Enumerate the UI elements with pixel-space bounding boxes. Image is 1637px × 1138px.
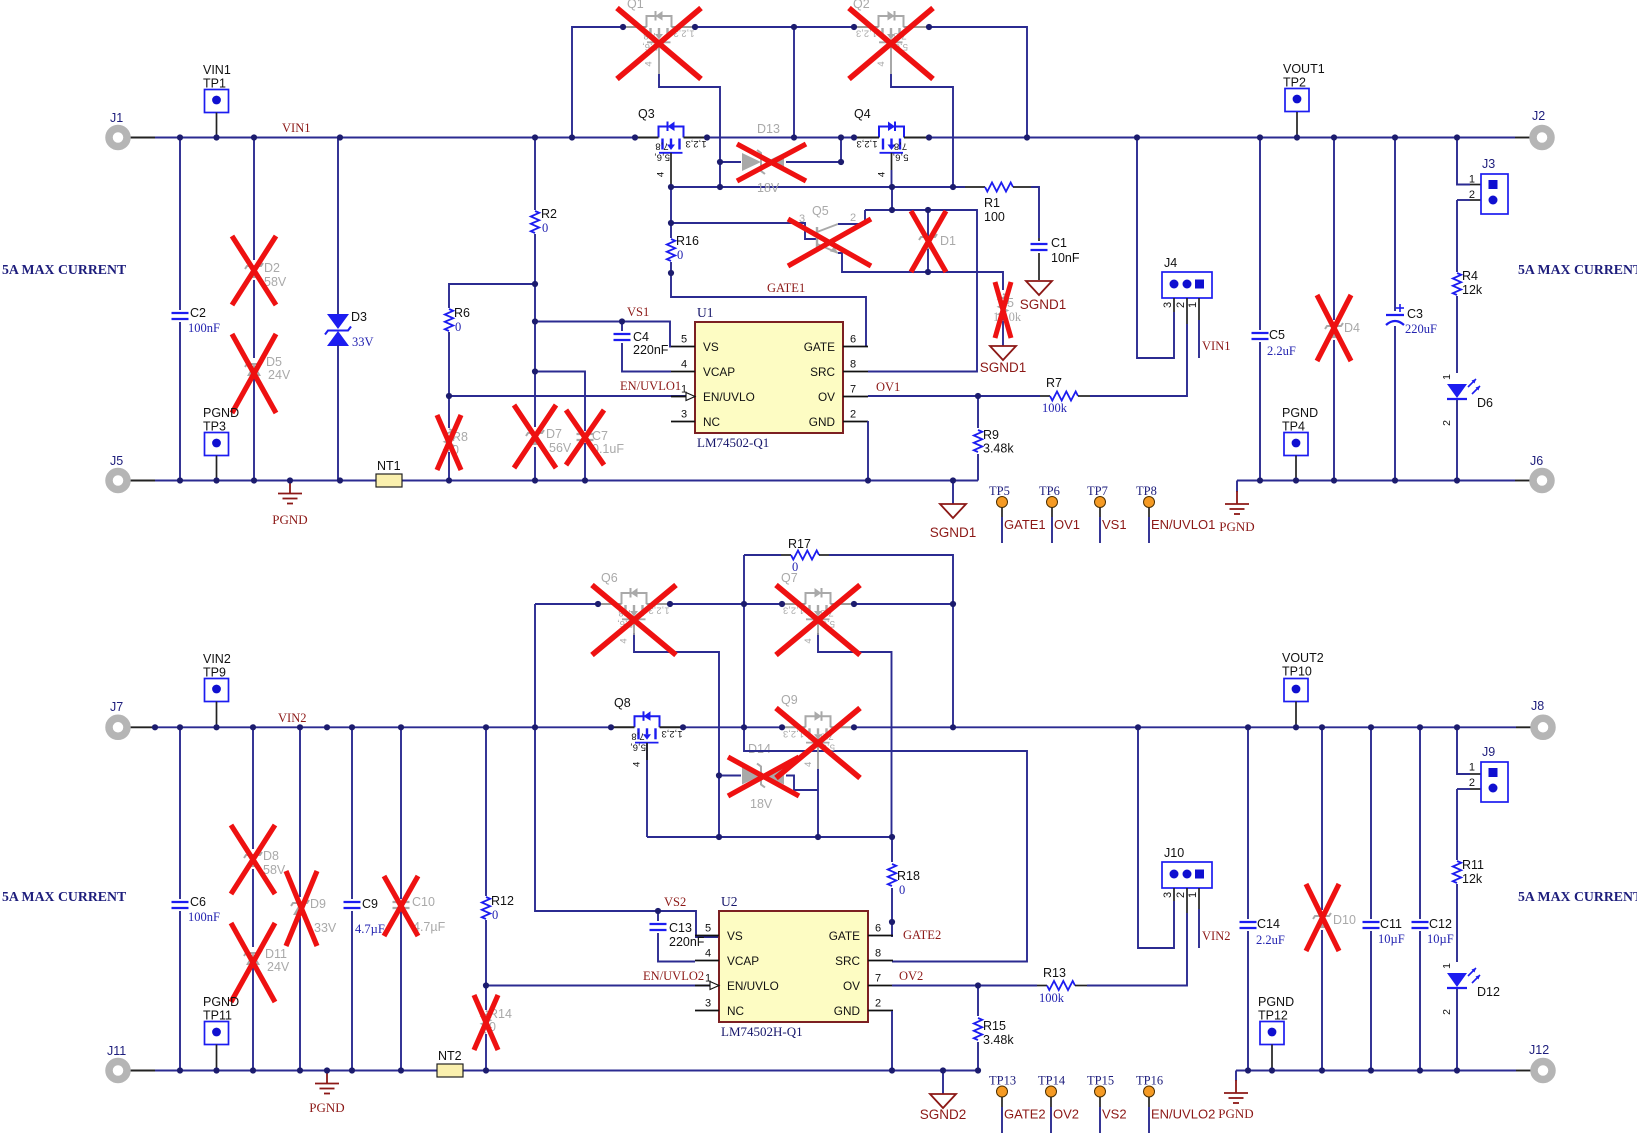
svg-text:4: 4: [877, 172, 888, 177]
svg-text:J11: J11: [107, 1044, 126, 1058]
svg-text:4: 4: [656, 172, 667, 177]
svg-text:D4: D4: [1344, 321, 1360, 335]
svg-text:EN/UVLO1: EN/UVLO1: [1151, 517, 1215, 532]
svg-text:R6: R6: [454, 306, 470, 320]
svg-text:PGND: PGND: [272, 512, 307, 527]
svg-text:100k: 100k: [1042, 401, 1068, 415]
svg-text:1,2,3: 1,2,3: [685, 138, 706, 149]
svg-text:24V: 24V: [268, 368, 291, 382]
svg-text:6: 6: [850, 334, 856, 346]
svg-text:PGND: PGND: [309, 1100, 344, 1115]
svg-text:PGND: PGND: [203, 995, 239, 1009]
svg-text:3.48k: 3.48k: [983, 442, 1014, 456]
svg-text:220nF: 220nF: [633, 343, 669, 357]
svg-text:33V: 33V: [352, 335, 374, 349]
svg-text:0: 0: [677, 248, 683, 262]
svg-text:5A MAX CURRENT: 5A MAX CURRENT: [2, 889, 126, 904]
svg-text:D14: D14: [748, 742, 771, 756]
svg-text:2: 2: [1441, 1009, 1453, 1015]
svg-text:C2: C2: [190, 306, 206, 320]
svg-text:TP16: TP16: [1136, 1074, 1163, 1088]
svg-text:100nF: 100nF: [188, 910, 220, 924]
svg-text:Q4: Q4: [854, 107, 871, 121]
svg-text:OV1: OV1: [876, 380, 900, 394]
svg-text:24V: 24V: [267, 960, 290, 974]
svg-text:C7: C7: [592, 429, 608, 443]
svg-text:220uF: 220uF: [1405, 322, 1437, 336]
svg-text:5A MAX CURRENT: 5A MAX CURRENT: [1518, 262, 1637, 277]
svg-text:C9: C9: [362, 897, 378, 911]
svg-text:5: 5: [705, 923, 711, 935]
svg-text:J5: J5: [110, 454, 123, 468]
svg-text:OV: OV: [818, 390, 835, 404]
svg-text:12k: 12k: [1462, 283, 1483, 297]
svg-text:D7: D7: [546, 427, 562, 441]
svg-text:1: 1: [1441, 374, 1453, 380]
svg-text:1,2,3: 1,2,3: [661, 728, 682, 739]
svg-text:D11: D11: [265, 947, 287, 961]
svg-text:VIN1: VIN1: [1202, 339, 1230, 353]
svg-text:VS: VS: [703, 340, 719, 354]
svg-text:3: 3: [705, 998, 711, 1010]
svg-text:VS1: VS1: [1102, 517, 1127, 532]
svg-text:C10: C10: [412, 895, 435, 909]
svg-text:D13: D13: [757, 122, 780, 136]
svg-text:EN/UVLO2: EN/UVLO2: [1151, 1107, 1215, 1122]
svg-text:J2: J2: [1532, 109, 1545, 123]
svg-text:TP8: TP8: [1136, 484, 1157, 498]
svg-text:VIN1: VIN1: [203, 63, 231, 77]
svg-text:R17: R17: [788, 537, 811, 551]
svg-text:1: 1: [1469, 174, 1475, 186]
svg-text:D12: D12: [1477, 985, 1500, 999]
svg-text:J4: J4: [1164, 256, 1177, 270]
svg-text:4: 4: [644, 61, 655, 66]
svg-text:1: 1: [1187, 892, 1199, 898]
svg-text:J3: J3: [1482, 157, 1495, 171]
svg-text:LM74502-Q1: LM74502-Q1: [697, 435, 769, 450]
svg-text:7,8: 7,8: [894, 141, 907, 152]
svg-text:5A MAX CURRENT: 5A MAX CURRENT: [1518, 889, 1637, 904]
svg-text:TP9: TP9: [203, 666, 226, 680]
svg-text:3: 3: [681, 409, 687, 421]
svg-text:4: 4: [681, 359, 687, 371]
svg-text:J1: J1: [110, 111, 123, 125]
svg-text:EN/UVLO: EN/UVLO: [727, 979, 779, 993]
svg-text:NT2: NT2: [438, 1049, 462, 1063]
svg-text:LM74502H-Q1: LM74502H-Q1: [721, 1024, 803, 1039]
svg-text:TP11: TP11: [203, 1009, 232, 1023]
svg-text:R2: R2: [541, 207, 557, 221]
svg-text:SGND1: SGND1: [980, 360, 1027, 375]
svg-text:VIN2: VIN2: [1202, 929, 1230, 943]
svg-text:PGND: PGND: [1282, 406, 1318, 420]
svg-text:PGND: PGND: [203, 406, 239, 420]
svg-text:OV2: OV2: [1053, 1107, 1079, 1122]
svg-text:4: 4: [803, 762, 814, 767]
svg-text:Q3: Q3: [638, 107, 655, 121]
svg-text:VIN2: VIN2: [278, 711, 306, 725]
svg-text:GATE: GATE: [829, 929, 860, 943]
svg-text:0: 0: [542, 221, 548, 235]
svg-text:5,6,: 5,6,: [630, 741, 646, 752]
svg-text:TP3: TP3: [203, 420, 226, 434]
svg-text:R7: R7: [1046, 376, 1062, 390]
svg-text:NT1: NT1: [377, 459, 401, 473]
svg-text:J10: J10: [1164, 846, 1184, 860]
svg-text:J8: J8: [1531, 699, 1544, 713]
svg-text:Q8: Q8: [614, 696, 631, 710]
svg-text:C5: C5: [1269, 328, 1285, 342]
svg-text:TP13: TP13: [989, 1074, 1016, 1088]
svg-text:1: 1: [1469, 762, 1475, 774]
svg-text:VIN1: VIN1: [282, 121, 310, 135]
svg-text:5,6,: 5,6,: [654, 152, 670, 163]
svg-text:5: 5: [681, 334, 687, 346]
svg-text:1,2,3: 1,2,3: [856, 138, 877, 149]
svg-text:5,6,: 5,6,: [893, 152, 909, 163]
svg-text:TP6: TP6: [1039, 484, 1060, 498]
svg-text:2: 2: [1175, 302, 1187, 308]
svg-text:GATE2: GATE2: [903, 928, 941, 942]
svg-text:VS2: VS2: [664, 895, 686, 909]
svg-text:R12: R12: [491, 894, 514, 908]
svg-text:12k: 12k: [1462, 872, 1483, 886]
svg-text:2: 2: [850, 409, 856, 421]
svg-text:Q9: Q9: [781, 693, 798, 707]
svg-text:18V: 18V: [750, 797, 773, 811]
svg-text:SGND1: SGND1: [1020, 297, 1067, 312]
svg-text:C1: C1: [1051, 236, 1067, 250]
svg-text:PGND: PGND: [1219, 519, 1254, 534]
svg-text:TP4: TP4: [1282, 420, 1305, 434]
svg-text:4: 4: [803, 638, 814, 643]
svg-text:VCAP: VCAP: [727, 954, 759, 968]
svg-text:2: 2: [1469, 189, 1475, 201]
svg-text:Q6: Q6: [601, 571, 618, 585]
svg-text:VS: VS: [727, 929, 743, 943]
svg-text:33V: 33V: [314, 921, 337, 935]
svg-text:OV2: OV2: [899, 969, 923, 983]
svg-text:C12: C12: [1429, 917, 1452, 931]
svg-text:C4: C4: [633, 330, 649, 344]
svg-text:2: 2: [1469, 777, 1475, 789]
svg-text:TP15: TP15: [1087, 1074, 1114, 1088]
svg-text:J9: J9: [1482, 745, 1495, 759]
svg-text:2.2uF: 2.2uF: [1256, 933, 1285, 947]
svg-text:4: 4: [705, 948, 711, 960]
svg-text:10nF: 10nF: [1051, 251, 1080, 265]
svg-text:NC: NC: [727, 1004, 745, 1018]
svg-text:SRC: SRC: [835, 954, 860, 968]
svg-text:D6: D6: [1477, 396, 1493, 410]
svg-text:18V: 18V: [757, 181, 780, 195]
svg-text:TP12: TP12: [1258, 1009, 1288, 1023]
svg-text:R9: R9: [983, 428, 999, 442]
svg-text:SGND1: SGND1: [930, 525, 977, 540]
svg-text:TP1: TP1: [203, 77, 226, 91]
svg-text:D8: D8: [263, 849, 279, 863]
svg-text:VOUT1: VOUT1: [1283, 62, 1325, 76]
svg-text:100nF: 100nF: [188, 321, 220, 335]
svg-text:TP2: TP2: [1283, 76, 1306, 90]
svg-text:8: 8: [850, 359, 856, 371]
svg-text:3: 3: [1162, 892, 1174, 898]
svg-text:7: 7: [850, 384, 856, 396]
svg-text:100: 100: [984, 210, 1005, 224]
svg-text:J7: J7: [110, 700, 123, 714]
svg-text:10µF: 10µF: [1427, 932, 1454, 946]
svg-text:D1: D1: [940, 234, 956, 248]
svg-text:10µF: 10µF: [1378, 932, 1405, 946]
svg-text:3.48k: 3.48k: [983, 1033, 1014, 1047]
svg-text:D3: D3: [351, 310, 367, 324]
svg-text:OV1: OV1: [1054, 517, 1080, 532]
svg-text:EN/UVLO2: EN/UVLO2: [643, 969, 704, 983]
svg-text:6: 6: [875, 923, 881, 935]
svg-text:PGND: PGND: [1258, 995, 1294, 1009]
svg-text:GATE1: GATE1: [1004, 517, 1046, 532]
svg-text:56V: 56V: [549, 441, 572, 455]
svg-text:5A MAX CURRENT: 5A MAX CURRENT: [2, 262, 126, 277]
svg-text:R16: R16: [676, 234, 699, 248]
svg-text:R4: R4: [1462, 269, 1478, 283]
svg-text:4: 4: [632, 762, 643, 767]
svg-text:Q2: Q2: [853, 0, 870, 11]
svg-text:C6: C6: [190, 895, 206, 909]
svg-text:R13: R13: [1043, 966, 1066, 980]
svg-text:J12: J12: [1529, 1043, 1549, 1057]
svg-text:GND: GND: [834, 1004, 860, 1018]
svg-text:2: 2: [1441, 420, 1453, 426]
svg-text:8: 8: [875, 948, 881, 960]
svg-text:4: 4: [619, 638, 630, 643]
svg-text:VCAP: VCAP: [703, 365, 735, 379]
svg-text:4: 4: [876, 61, 887, 66]
svg-text:0: 0: [899, 883, 905, 897]
svg-text:7,8: 7,8: [655, 141, 668, 152]
svg-text:GATE2: GATE2: [1004, 1107, 1046, 1122]
svg-text:R18: R18: [897, 869, 920, 883]
svg-text:EN/UVLO: EN/UVLO: [703, 390, 755, 404]
svg-text:OV: OV: [843, 979, 860, 993]
svg-text:EN/UVLO1: EN/UVLO1: [620, 379, 681, 393]
svg-text:58V: 58V: [263, 863, 286, 877]
svg-text:TP10: TP10: [1282, 665, 1312, 679]
svg-text:VIN2: VIN2: [203, 652, 231, 666]
svg-text:VS2: VS2: [1102, 1107, 1127, 1122]
svg-text:R11: R11: [1462, 858, 1484, 872]
svg-text:Q1: Q1: [627, 0, 644, 11]
svg-text:Q5: Q5: [812, 204, 829, 218]
svg-text:C11: C11: [1380, 917, 1402, 931]
svg-text:D2: D2: [264, 261, 280, 275]
svg-text:VS1: VS1: [627, 305, 649, 319]
svg-text:1: 1: [1187, 302, 1199, 308]
svg-text:U2: U2: [721, 894, 738, 909]
svg-text:2: 2: [875, 998, 881, 1010]
svg-text:GATE1: GATE1: [767, 281, 805, 295]
svg-text:2.2uF: 2.2uF: [1267, 344, 1296, 358]
svg-text:100k: 100k: [1039, 991, 1065, 1005]
svg-text:SRC: SRC: [810, 365, 835, 379]
svg-text:D9: D9: [310, 897, 326, 911]
svg-text:0: 0: [455, 320, 461, 334]
svg-text:VOUT2: VOUT2: [1282, 651, 1324, 665]
svg-text:2: 2: [850, 212, 856, 224]
svg-text:SGND2: SGND2: [920, 1107, 967, 1122]
svg-text:1: 1: [1441, 963, 1453, 969]
svg-text:GND: GND: [809, 415, 835, 429]
svg-text:U1: U1: [697, 305, 714, 320]
svg-text:R15: R15: [983, 1019, 1006, 1033]
svg-text:TP14: TP14: [1038, 1074, 1066, 1088]
svg-text:4.7µF: 4.7µF: [355, 922, 385, 936]
svg-text:C13: C13: [669, 921, 692, 935]
svg-text:R1: R1: [984, 196, 1000, 210]
svg-text:NC: NC: [703, 415, 721, 429]
svg-text:7,8: 7,8: [631, 730, 644, 741]
svg-text:J6: J6: [1530, 454, 1543, 468]
svg-text:7: 7: [875, 973, 881, 985]
svg-text:PGND: PGND: [1218, 1106, 1253, 1121]
svg-text:2: 2: [1175, 892, 1187, 898]
svg-text:D5: D5: [266, 355, 282, 369]
svg-text:GATE: GATE: [804, 340, 835, 354]
svg-text:TP5: TP5: [989, 484, 1010, 498]
svg-text:220nF: 220nF: [669, 935, 705, 949]
svg-text:0: 0: [492, 908, 498, 922]
svg-text:D10: D10: [1333, 913, 1356, 927]
svg-text:C14: C14: [1257, 917, 1280, 931]
svg-text:C3: C3: [1407, 307, 1423, 321]
svg-text:3: 3: [1162, 302, 1174, 308]
svg-text:TP7: TP7: [1087, 484, 1108, 498]
svg-text:Q7: Q7: [781, 571, 798, 585]
